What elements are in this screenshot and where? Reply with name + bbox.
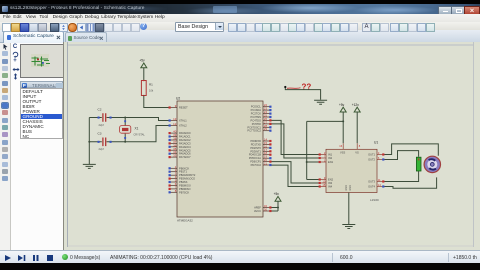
svg-text:PB4SS: PB4SS — [179, 180, 188, 184]
sheet border right — [473, 42, 475, 247]
resistor R1 10k — [141, 80, 153, 97]
svg-text:C3: C3 — [98, 132, 102, 136]
wire EN1 branch — [307, 161, 319, 163]
junction C3/crystal — [124, 141, 126, 143]
svg-text:PD3INT1: PD3INT1 — [250, 149, 261, 153]
svg-text:16: 16 — [339, 144, 342, 148]
capacitor C2 — [89, 107, 125, 127]
svg-text:XTAL1: XTAL1 — [179, 119, 187, 123]
svg-text:ATMEGA32: ATMEGA32 — [177, 219, 193, 223]
wire PC4 to IN1 — [272, 120, 319, 154]
svg-text:PD5OC1A: PD5OC1A — [249, 156, 261, 160]
svg-text:8: 8 — [359, 144, 361, 148]
svg-text:R1: R1 — [149, 82, 153, 86]
menu bar — [0, 14, 480, 23]
wire PD6 to IN3 — [272, 162, 319, 183]
svg-text:CRYSTAL: CRYSTAL — [134, 133, 146, 136]
svg-text:PA4ADC4: PA4ADC4 — [179, 145, 191, 149]
svg-text:+5v: +5v — [139, 59, 145, 63]
svg-text:PC3TMS: PC3TMS — [250, 115, 261, 119]
motor driver U1 L293D — [319, 141, 385, 202]
svg-text:PB0XCK: PB0XCK — [179, 166, 190, 170]
svg-text:PB3AIN1OC0: PB3AIN1OC0 — [179, 177, 196, 181]
svg-text:13: 13 — [173, 117, 177, 121]
terminals list — [20, 88, 63, 139]
power terminal +5v (VSS) — [339, 103, 346, 112]
svg-text:30: 30 — [264, 208, 268, 212]
svg-text:IN4: IN4 — [328, 185, 333, 189]
microcontroller U2 ATMEGA32 — [169, 97, 272, 223]
svg-text:PD6ICP1: PD6ICP1 — [250, 160, 261, 164]
svg-text:PA7ADC7: PA7ADC7 — [179, 155, 191, 159]
svg-text:PA5ADC5: PA5ADC5 — [179, 148, 191, 152]
svg-text:X1: X1 — [135, 127, 139, 131]
svg-text:PC1SDA: PC1SDA — [251, 108, 262, 112]
wire +5v to R1 — [143, 68, 145, 81]
wire to XTAL1 — [125, 118, 168, 121]
wire EN rail to +5v — [306, 121, 344, 179]
title bar — [0, 4, 480, 14]
ground (?? net) — [314, 100, 327, 104]
power terminal +12v (VS) — [352, 103, 360, 112]
svg-text:PA1ADC1: PA1ADC1 — [179, 135, 191, 139]
wire ?? to ground — [285, 88, 320, 100]
svg-text:PC5TDI: PC5TDI — [252, 122, 262, 126]
svg-text:PB7SCK: PB7SCK — [179, 190, 190, 194]
ground (C2/C3) — [83, 164, 96, 168]
wire R1 to RESET — [144, 96, 169, 108]
svg-text:OUT4: OUT4 — [368, 185, 375, 189]
svg-text:RESET: RESET — [179, 106, 188, 110]
sheet border bottom — [68, 245, 474, 247]
toolbar — [0, 22, 480, 30]
svg-text:VSS: VSS — [340, 151, 345, 155]
tab bar — [0, 30, 480, 43]
svg-text:AVCC: AVCC — [254, 209, 261, 213]
wire OUT3 to coil — [385, 171, 419, 181]
left mode toolbar strip bg (behind icons) — [0, 42, 11, 250]
svg-text:C2: C2 — [98, 107, 102, 111]
svg-text:PD1TXD: PD1TXD — [251, 142, 261, 146]
sheet border left — [67, 42, 69, 247]
svg-text:AREF: AREF — [254, 206, 261, 210]
svg-text:OUT1: OUT1 — [368, 153, 375, 157]
node ?? (unnamed net) — [284, 82, 311, 91]
schematic canvas — [63, 42, 480, 250]
svg-text:PA2ADC2: PA2ADC2 — [179, 138, 191, 142]
svg-text:22pf: 22pf — [99, 123, 104, 127]
svg-text:PA0ADC0: PA0ADC0 — [179, 131, 191, 135]
svg-text:PB5MOSI: PB5MOSI — [179, 183, 191, 187]
svg-text:PD0RXD: PD0RXD — [250, 139, 261, 143]
svg-text:PD4OC1B: PD4OC1B — [249, 153, 261, 157]
svg-text:EN2: EN2 — [328, 178, 334, 182]
svg-text:IN3: IN3 — [328, 181, 333, 185]
capacitor C3 — [89, 132, 125, 151]
svg-text:+5v: +5v — [274, 192, 280, 196]
wire to XTAL2 — [125, 126, 168, 142]
stepper motor coil — [416, 157, 421, 171]
svg-text:GND: GND — [345, 185, 348, 191]
svg-text:GND: GND — [349, 185, 352, 191]
svg-text:PC4TDO: PC4TDO — [250, 118, 261, 122]
svg-text:22pf: 22pf — [99, 147, 104, 151]
junction C2/crystal — [124, 117, 126, 119]
wire OUT2 to coil — [385, 151, 419, 160]
svg-text:PC2TCK: PC2TCK — [251, 112, 262, 116]
wire +12v to VS — [356, 112, 358, 143]
crystal X1 — [120, 118, 146, 142]
stepper motor M1 — [424, 156, 440, 172]
ground (L293D) — [342, 225, 355, 229]
svg-text:PD7OC2: PD7OC2 — [251, 163, 262, 167]
svg-text:XTAL2: XTAL2 — [179, 124, 187, 128]
svg-text:VS: VS — [355, 151, 359, 155]
minimap — [20, 44, 65, 79]
svg-text:PB2AIN0INT2: PB2AIN0INT2 — [179, 173, 196, 177]
svg-text:PC7TOSC2: PC7TOSC2 — [247, 129, 261, 133]
svg-text:IN1: IN1 — [328, 153, 333, 157]
svg-text:OUT2: OUT2 — [368, 158, 375, 162]
svg-text:PC0SCL: PC0SCL — [251, 105, 262, 109]
power terminal +5v (AVCC) — [274, 192, 281, 201]
svg-text:PB1T1: PB1T1 — [179, 170, 187, 174]
wire ground rail left — [88, 118, 90, 165]
wire GND pins to ground — [348, 193, 350, 225]
svg-text:+12v: +12v — [352, 103, 359, 107]
svg-text:PA6ADC6: PA6ADC6 — [179, 152, 191, 156]
svg-text:29: 29 — [264, 127, 268, 131]
svg-text:PC6TOSC1: PC6TOSC1 — [247, 125, 261, 129]
svg-text:EN1: EN1 — [328, 160, 334, 164]
svg-text:OUT3: OUT3 — [368, 180, 375, 184]
wire +5v to VSS — [342, 112, 344, 143]
svg-text:12: 12 — [173, 122, 177, 126]
svg-text:U2: U2 — [176, 97, 180, 101]
wire PD7 to IN4 — [272, 165, 319, 186]
svg-text:PA3ADC3: PA3ADC3 — [179, 141, 191, 145]
wire PC5 to IN2 — [272, 124, 319, 158]
wire OUT1 to motor — [385, 144, 439, 156]
svg-text:PD2INT0: PD2INT0 — [250, 146, 261, 150]
svg-text:+5v: +5v — [339, 103, 345, 107]
P / TERMINALS header — [20, 81, 63, 88]
svg-text:33: 33 — [173, 154, 177, 158]
svg-text:21: 21 — [264, 162, 268, 166]
svg-text:L293D: L293D — [370, 198, 380, 202]
svg-text:10k: 10k — [149, 88, 154, 92]
svg-text:U1: U1 — [374, 141, 378, 145]
wire AREF/AVCC to +5v — [272, 201, 280, 211]
power terminal +5v (reset pullup) — [139, 59, 146, 68]
wire EN2 branch — [307, 179, 319, 181]
wire OUT4 to motor — [385, 177, 437, 188]
status bar — [0, 250, 480, 263]
sheet border top — [68, 44, 474, 46]
svg-text:IN2: IN2 — [328, 156, 333, 160]
svg-text:PB6MISO: PB6MISO — [179, 187, 191, 191]
